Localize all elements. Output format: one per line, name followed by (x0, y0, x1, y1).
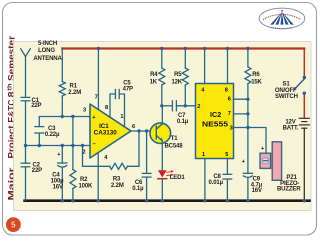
college logo (259, 8, 305, 29)
svg-text:16V: 16V (252, 188, 262, 194)
svg-text:1: 1 (120, 114, 123, 120)
IC2 pin5 wire + capacitor C8 (223, 159, 232, 201)
svg-text:12K: 12K (171, 79, 182, 85)
svg-text:12V: 12V (285, 119, 295, 125)
svg-text:15K: 15K (251, 79, 262, 85)
svg-text:2.2M: 2.2M (68, 90, 81, 96)
battery 12V (299, 118, 309, 200)
svg-text:22P: 22P (32, 168, 42, 174)
svg-text:6: 6 (228, 96, 231, 102)
svg-text:IC1: IC1 (99, 123, 109, 130)
svg-text:3: 3 (230, 126, 233, 132)
svg-text:6: 6 (132, 124, 135, 130)
svg-text:T1: T1 (171, 136, 179, 142)
svg-text:R5: R5 (174, 72, 182, 78)
svg-text:R6: R6 (252, 72, 260, 78)
collector node wire to IC2 pin2, with capacitor C7 (162, 101, 196, 111)
svg-text:R3: R3 (113, 176, 121, 182)
capacitor C4 (electrolytic) (58, 146, 67, 201)
svg-text:ON/OFF: ON/OFF (275, 88, 297, 94)
piezo buzzer PZ1 (260, 142, 282, 181)
antenna (21, 49, 31, 97)
capacitor C6 (142, 131, 151, 201)
svg-text:8: 8 (105, 105, 108, 111)
switch S1 (295, 76, 306, 95)
capacitor C5 with pin8/pin1 leads (110, 90, 125, 127)
IC2 pin8 wire (227, 49, 229, 84)
svg-text:LONG: LONG (38, 48, 55, 54)
svg-text:2: 2 (82, 149, 85, 155)
svg-text:2: 2 (197, 104, 200, 110)
svg-text:CA3130: CA3130 (94, 131, 118, 137)
capacitor C3 (35, 127, 44, 146)
svg-text:IC2: IC2 (210, 110, 221, 119)
svg-text:7: 7 (228, 111, 231, 117)
svg-text:8: 8 (225, 88, 228, 94)
resistor R2 (70, 117, 76, 201)
IC2 pin3 output wire (234, 128, 267, 153)
IC1 pin 4 wire (97, 153, 99, 201)
svg-text:16V: 16V (53, 185, 63, 191)
transistor T1 BC548 (150, 106, 171, 170)
IC1 pin 7 wire (97, 49, 99, 110)
svg-text:0.1µ: 0.1µ (177, 119, 189, 125)
S1 feed wire (red, right side down) (303, 49, 305, 78)
svg-text:BUZZER: BUZZER (277, 187, 301, 193)
svg-text:SWITCH: SWITCH (275, 94, 298, 100)
svg-text:NE555: NE555 (202, 120, 228, 129)
IC2 pin7 wire (234, 113, 248, 115)
svg-text:22P: 22P (31, 103, 41, 109)
svg-text:BC548: BC548 (165, 143, 184, 149)
svg-text:S1: S1 (282, 82, 290, 88)
svg-text:–: – (93, 141, 96, 147)
svg-text:47P: 47P (123, 87, 133, 93)
svg-text:5-INCH: 5-INCH (38, 41, 57, 47)
svg-text:R4: R4 (150, 72, 158, 78)
resistor R3 + feedback wire (83, 131, 140, 169)
svg-text:5: 5 (11, 220, 16, 229)
svg-text:R2: R2 (80, 177, 88, 183)
svg-text:0.22µ: 0.22µ (45, 132, 60, 138)
IC1 pin6 output wire (131, 130, 156, 132)
IC2 pin1 wire (204, 159, 206, 201)
svg-text:LED1: LED1 (170, 175, 186, 181)
svg-text:0.1µ: 0.1µ (132, 186, 144, 192)
LED1 (158, 170, 174, 200)
svg-text:3: 3 (83, 107, 86, 113)
svg-text:1: 1 (202, 152, 205, 158)
resistor R6 + C9 column (245, 49, 251, 174)
svg-text:100µ: 100µ (51, 178, 65, 184)
svg-text:100K: 100K (79, 184, 94, 190)
node pin3 wire (non-inverting input line) (39, 117, 90, 127)
svg-text:2.2M: 2.2M (111, 183, 124, 189)
svg-text:5: 5 (225, 152, 228, 158)
svg-text:BATT.: BATT. (283, 126, 299, 132)
svg-text:R1: R1 (70, 84, 78, 90)
svg-text:C3: C3 (48, 126, 56, 132)
capacitor C2 (21, 146, 30, 201)
resistor R1 (59, 49, 65, 117)
capacitor C1 (21, 97, 30, 145)
sidebar rotated text (7, 36, 18, 201)
ground rail (black) (25, 199, 310, 202)
IC2 pin6 wire (234, 98, 248, 100)
resistor R4 (159, 49, 165, 106)
op-amp IC1 CA3130 (90, 104, 131, 158)
circuit panel (14, 42, 312, 211)
svg-text:0.01µ: 0.01µ (209, 180, 224, 186)
svg-text:th: th (7, 83, 14, 90)
page number dot (6, 217, 21, 232)
svg-text:1K: 1K (150, 79, 158, 85)
resistor R5 (182, 49, 188, 106)
+V supply rail (red) (62, 47, 304, 49)
capacitor C9 (electrolytic) (243, 173, 252, 200)
node pin2 wire (inverting input line) (26, 145, 91, 147)
svg-text:7: 7 (95, 95, 98, 101)
IC2 pin4 wire (204, 49, 206, 84)
svg-text:ANTENNA: ANTENNA (33, 56, 62, 62)
timer IC2 NE555 (196, 84, 234, 159)
wire S1 to battery (red) (303, 93, 305, 117)
